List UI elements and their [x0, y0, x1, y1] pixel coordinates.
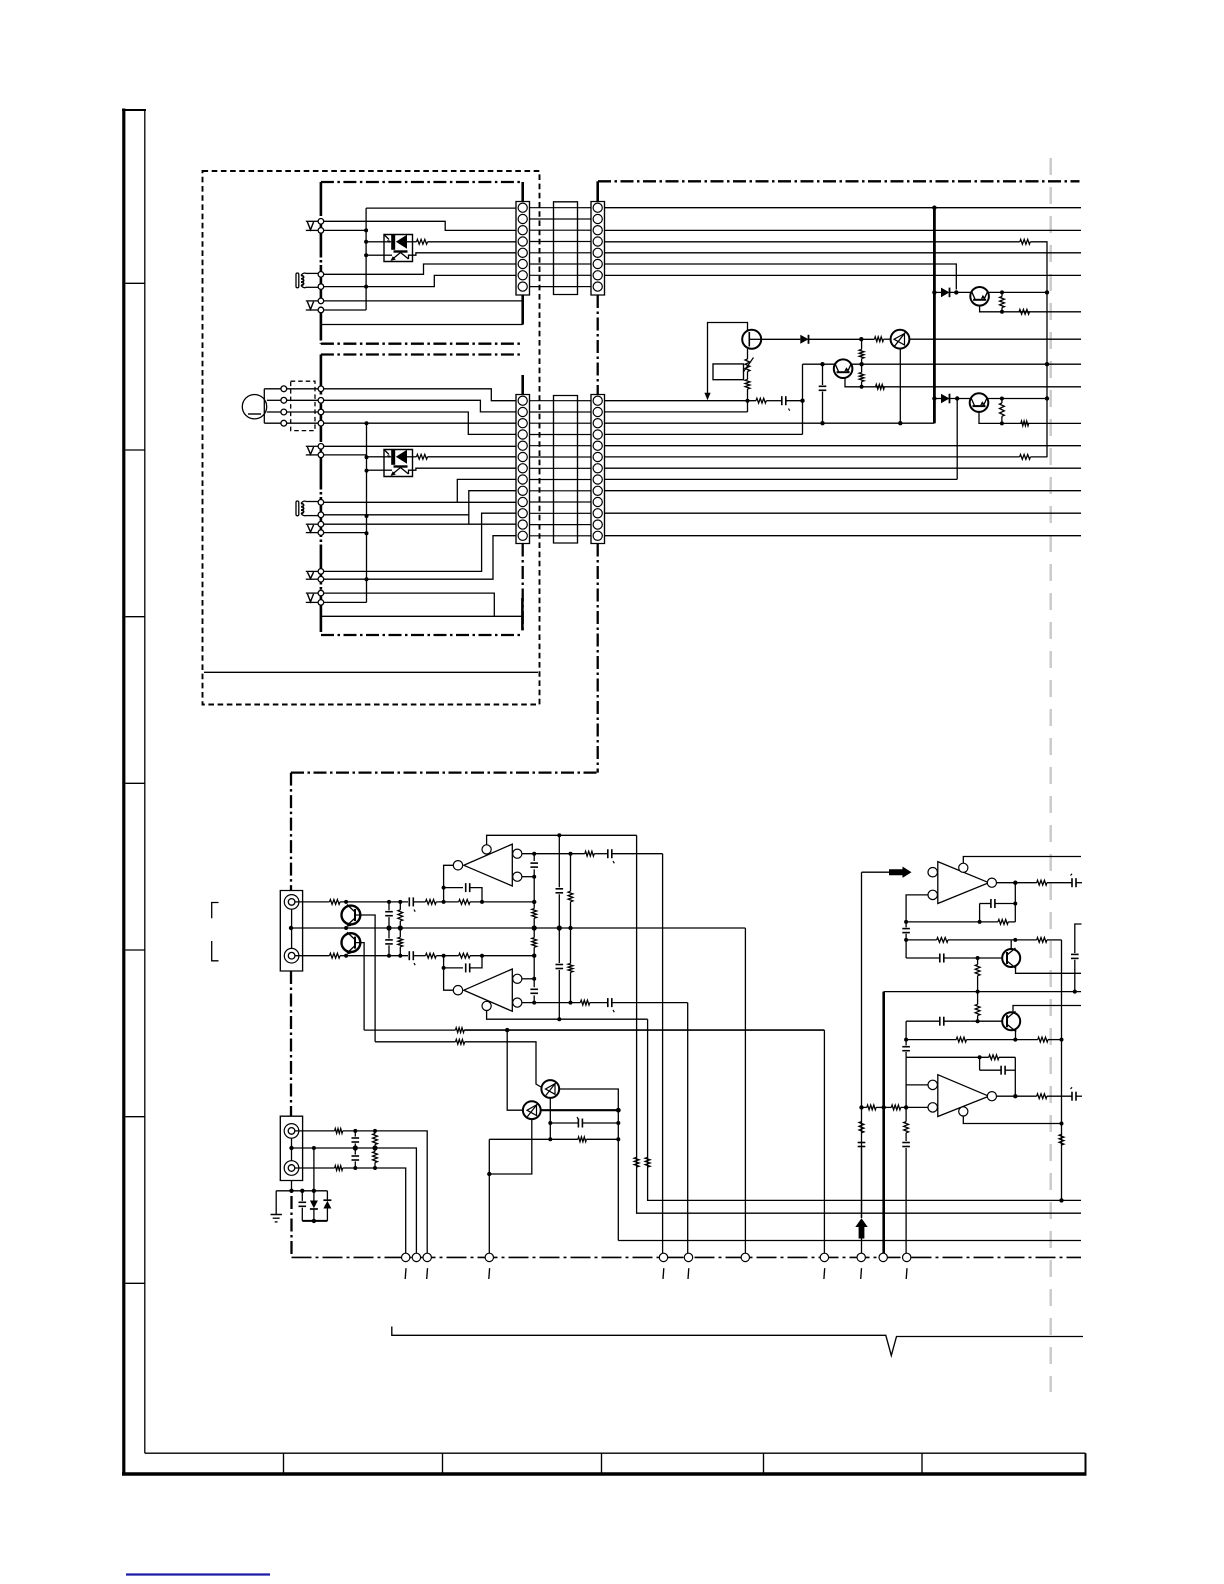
shielded wire symbol V1 lower	[306, 445, 318, 447]
jack J2 internal common	[291, 1138, 293, 1161]
stub above upper-left connector	[521, 182, 524, 202]
wire pin4 resistor to riser corner	[1030, 241, 1047, 244]
dash-dot sleeve drop to bus corner	[290, 1196, 292, 1257]
resistor R on drop x647	[645, 1157, 650, 1167]
stub below upper-left connector to bus return	[521, 295, 524, 325]
diode D protection down	[310, 1191, 318, 1221]
wire V3 bottom to pin13	[324, 536, 516, 580]
jack J1 body	[280, 891, 302, 972]
drop x1061 riser	[1061, 940, 1063, 1201]
jack J2 tip contact	[284, 1124, 299, 1139]
drop wire middle rail to bus	[744, 928, 746, 1253]
wire ring line segment 2	[436, 955, 459, 957]
connector CN upper-right body with pins	[591, 202, 605, 296]
shielded wire symbol V3	[306, 570, 318, 572]
diode D lower cluster	[934, 394, 969, 404]
wire PC2 emitter from bundle	[368, 469, 384, 471]
wire V1 upper top to pin3	[324, 221, 516, 230]
cable ladder between lower connectors	[530, 396, 592, 544]
left bar scale tick 5	[126, 949, 145, 951]
jack J1 ring contact	[284, 948, 299, 963]
page frame bottom title strip	[122, 1453, 1087, 1474]
buffer B circle with left triangle	[523, 1101, 541, 1119]
net rail pin13 lower	[605, 535, 1082, 537]
wire motor t2 to pin2 lower	[287, 399, 318, 401]
op-amp U1 triangle pointing left	[453, 844, 522, 886]
jack J2 body	[280, 1116, 302, 1180]
connector CN lower-right body with pins	[591, 395, 605, 544]
net rail pin9 lower	[605, 490, 1082, 492]
driver emitter drop wire	[899, 349, 901, 424]
junction thick bus top	[932, 206, 936, 210]
capacitor C column x355 upper	[352, 1131, 360, 1148]
resistor R row 1139	[489, 1137, 618, 1142]
riser x1047 tying clusters	[1046, 242, 1048, 457]
wire PC1 collector to pin5	[413, 253, 517, 255]
wire Q3 base drop to long line	[355, 915, 375, 1042]
wire T2 base segment	[970, 1020, 1002, 1022]
varistor RV below FET	[743, 358, 754, 373]
wire L2 top to pin8 and pin10	[305, 501, 318, 503]
net rail pin3 upper	[605, 229, 1082, 231]
bold arrow up on x861	[855, 1218, 867, 1253]
wire T1 collector up	[1010, 940, 1012, 949]
transistor Q mid cluster	[834, 359, 853, 378]
page frame left border bar	[122, 109, 146, 1476]
row 939.9 with resistors	[906, 938, 1061, 943]
shielded wire symbol V2 lower	[306, 523, 318, 525]
buffer A circle with left triangle	[541, 1080, 559, 1098]
feedback capacitor C U2	[444, 956, 482, 973]
series capacitor C row 853	[594, 849, 662, 863]
resistor R collector-emitter upper cluster	[1000, 297, 1005, 308]
wire buffer B output thick	[541, 1109, 619, 1111]
bracket glyph upper	[212, 903, 219, 919]
wire T1 emitter to rail 973	[1016, 968, 1082, 974]
line 1030 to drop x824	[464, 1029, 824, 1031]
row 921.9 left segment	[906, 921, 980, 923]
bus pin circles V2 lower	[318, 521, 324, 527]
wire V2 upper top to connector foot	[324, 300, 523, 302]
bus pin circles L2	[318, 500, 324, 506]
drop wire x489 to bus	[488, 1139, 490, 1253]
series capacitor C U3 output	[1047, 874, 1082, 888]
wire L1 top to pin6	[305, 272, 318, 274]
wire pin1 lower chain	[605, 400, 757, 402]
ground bundle vertical in block 2	[366, 423, 368, 602]
resistor R line 1041	[456, 1039, 465, 1044]
op-amp U3 triangle pointing right	[928, 862, 997, 904]
left bar scale tick 6	[126, 1116, 145, 1118]
series capacitor C T1 base	[906, 954, 970, 963]
resistor R row 853	[585, 851, 594, 856]
wire J2 ring to drop x405	[343, 1168, 406, 1253]
wire x906 to U4 input	[906, 1057, 928, 1085]
line 1041 to buffer A	[465, 1042, 542, 1088]
wire V2 lower top to pin9 and pin12	[324, 523, 516, 525]
resistor R on drop x636	[634, 1157, 639, 1167]
wire motor t4 to pin3 lower	[287, 422, 318, 424]
bus pin circles V3	[318, 569, 324, 575]
thick bus drop x883	[882, 992, 885, 1254]
cable ladder between upper connectors	[530, 202, 592, 295]
wire T2 emitter row 1039	[1015, 1031, 1017, 1040]
resistor R below varistor	[745, 380, 750, 390]
feedback resistor R U3	[980, 904, 1016, 925]
bus pin circles for V1 upper	[318, 219, 324, 225]
inductor L2 block2	[296, 501, 306, 516]
wire buffer B bottom to bus drop	[489, 1119, 532, 1174]
series capacitor C T2 base	[906, 1017, 970, 1026]
diode D upper cluster	[934, 288, 970, 298]
wire J2 ring line	[295, 1167, 335, 1169]
resistor R pin4 rail	[1020, 239, 1031, 244]
resistor R J2 tip	[335, 1129, 343, 1134]
title strip divider 3	[601, 1453, 603, 1473]
feedback capacitor C U3	[980, 883, 1016, 908]
inductor L1 block1	[296, 273, 306, 288]
wire pin4 upper to riser	[605, 241, 1020, 243]
rail through driver transistor	[884, 338, 891, 340]
series capacitor C U4 output	[1047, 1087, 1082, 1101]
motor M	[242, 395, 266, 419]
wire U2 output top	[522, 978, 534, 980]
diode D after FET	[761, 335, 874, 344]
capacitor C row 1123	[550, 1117, 618, 1128]
dashed box around motor terminals	[291, 381, 315, 430]
wire pin8 lower to step	[605, 478, 958, 480]
resistor R ring line 3	[459, 953, 470, 958]
resistor R row 1002	[580, 1000, 589, 1005]
long row 1240 to right edge	[618, 1240, 1081, 1242]
wire J2 tip to drop x427	[343, 1131, 428, 1253]
pcb block 2 dash-dot top edge	[321, 353, 523, 355]
transistor Q T2 right cluster	[1002, 1011, 1020, 1032]
pcb block 1 dash-dot bottom edge	[321, 343, 523, 345]
left bar scale tick 3	[126, 616, 145, 618]
bracket glyph lower	[212, 941, 219, 961]
resistor R emitter rail upper cluster	[1019, 309, 1030, 314]
step wire diode to pin8 rail	[956, 399, 958, 480]
left bar scale tick 2	[126, 449, 145, 451]
gate loop wire with arrow	[708, 323, 748, 394]
dash-dot link upper-right to lower-right connector	[597, 295, 599, 395]
middle common rail	[291, 927, 745, 929]
title strip divider 2	[442, 1453, 444, 1473]
resistor R column x375 upper	[373, 1131, 378, 1148]
wire U1 inverting input feedback	[444, 865, 454, 902]
resistor R line 1030	[456, 1028, 465, 1033]
thick collector bus vertical	[933, 208, 936, 424]
resistor R on x861	[859, 1122, 864, 1133]
column x534 capacitor lower	[530, 956, 538, 1003]
connector CN lower-left body with pins	[516, 395, 530, 544]
wire U2 output bottom long rail	[522, 1002, 581, 1004]
net rail pin7 lower	[605, 467, 1082, 469]
wire connector foot return to bus	[321, 324, 523, 326]
transistor Q lower cluster	[970, 393, 989, 412]
jack J1 tip contact	[284, 895, 299, 910]
empty value label box	[713, 364, 744, 380]
row 1039.6 with resistors	[906, 1037, 1061, 1042]
resistor R emitter rail lower cluster	[1021, 421, 1029, 426]
capacitor C x906 into base row	[902, 922, 910, 940]
column x559 capacitor upper	[556, 835, 564, 928]
title strip divider 4	[763, 1453, 765, 1473]
wire V1 lower top to pin5	[324, 445, 516, 447]
wire T2 collector to rail 1005	[1013, 1006, 1081, 1013]
wire motor t3 to pin4 lower	[287, 411, 318, 413]
net rail pin11 lower	[605, 512, 1082, 514]
net rail pin5 lower	[605, 445, 1082, 447]
resistor R on x906 drop	[904, 1107, 909, 1141]
capacitor C x906 lower	[902, 1040, 910, 1058]
wire U4 vee stub to row 1123	[963, 1116, 1061, 1124]
ground branch row	[276, 1190, 327, 1192]
pcb block 1 left edge bus	[320, 182, 323, 344]
bus pin circles for L1	[318, 272, 324, 278]
wire tip line segment 3	[470, 901, 534, 903]
left bar scale tick 4	[126, 782, 145, 784]
wire pin4 lower to riser	[605, 433, 803, 435]
base rail y364	[803, 363, 1082, 365]
column x570 resistor upper	[568, 854, 573, 928]
wire PC1 emitter from bundle	[368, 254, 384, 256]
rail pin3 lower to thick bus	[605, 422, 935, 424]
wire V1 upper bottom to bundle	[324, 229, 366, 231]
signal arrow bold into op-amp U3	[862, 867, 912, 878]
wire U3 vcc stub to rail 856	[963, 857, 1081, 864]
column x559 capacitor lower	[556, 928, 564, 1019]
wire U1 output bottom	[522, 876, 534, 878]
shielded wire symbol V2 upper	[306, 300, 318, 302]
dash-dot below lower-left connector	[522, 544, 524, 632]
resistor R T2 base divider	[975, 992, 980, 1022]
wire jack J1 ring line	[295, 955, 330, 957]
outer dashed enclosure box	[203, 171, 540, 705]
wire V1 lower bottom to bundle	[324, 454, 367, 456]
series capacitor C pin1 chain	[766, 396, 802, 411]
row 991.6 from thick bus	[884, 991, 1081, 993]
wire U3 inverting input	[906, 895, 928, 922]
wire x906 T2 base corner down	[905, 1021, 907, 1039]
motor lead wires	[263, 389, 265, 423]
drop wire vcc rail to row 1213	[637, 835, 1081, 1213]
series capacitor C ring line	[409, 951, 425, 965]
left bar scale tick 7	[126, 1282, 145, 1284]
wire LED anode into PC2	[368, 456, 384, 458]
transistor Q upper cluster	[970, 287, 989, 306]
wire x861 lower segment	[861, 1148, 863, 1218]
resistor R base-to-lower	[859, 373, 864, 382]
net rail pin1 upper	[605, 207, 1082, 209]
main board dash-dot top rail	[598, 180, 1080, 182]
line Q3 output resistor	[375, 1041, 455, 1043]
protection common bar	[302, 1220, 327, 1222]
resistor R column x400 upper	[398, 902, 403, 928]
separator line inside dashed enclosure	[204, 671, 538, 673]
series capacitor C row 1002	[590, 998, 688, 1012]
wire L2 bottom to bundle	[305, 515, 318, 517]
wire LED anode into PC1	[368, 241, 384, 243]
capacitor C column x355 lower	[352, 1148, 360, 1168]
hook wire with capacitor right side	[1071, 924, 1082, 992]
dash-dot frame rail upper of bottom board	[291, 771, 598, 773]
wire PC2 collector to pin7	[413, 468, 517, 470]
left bar scale tick 1	[126, 282, 145, 284]
title strip divider 5	[921, 1453, 923, 1473]
bottom dash-dot bus rail	[292, 1256, 1082, 1258]
bus pin circles V1 lower	[318, 444, 324, 450]
dash-dot below lower-right connector	[597, 544, 599, 773]
resistor R U3 output	[1037, 880, 1047, 885]
shielded wire symbol V4	[306, 592, 318, 594]
ground bundle vertical in block 1	[365, 208, 367, 310]
capacitor C column x389 upper	[385, 902, 393, 928]
wire pin6 lower with resistor to riser	[605, 456, 1020, 458]
wire V2 upper bottom to bundle	[324, 309, 366, 311]
driver transistor Q circle with arrow	[891, 330, 910, 349]
resistor R on PC1 output to pin4	[417, 239, 428, 244]
wire tip line segment	[340, 901, 408, 903]
wire jack J1 tip line	[295, 901, 330, 903]
wire tip line segment 2	[436, 901, 459, 903]
block2 bottom return wire	[321, 615, 522, 617]
resistor R bus-to-base upper	[859, 349, 864, 358]
wire U3 output	[997, 882, 1037, 884]
wire buffer B input from line 1030	[507, 1030, 523, 1110]
resistor R collector-emitter lower cluster	[1000, 403, 1005, 416]
bus connector circles	[402, 1253, 911, 1261]
net rail pin7 upper	[605, 274, 1082, 276]
wire V3 top to pin11	[324, 513, 516, 571]
emitter wire lower cluster rail	[979, 412, 1081, 424]
FET Q2 circle	[742, 330, 761, 349]
resistor R jack J1 ring	[330, 953, 341, 958]
wire U4 output	[997, 1095, 1037, 1097]
wire Q4 base drop to long line	[355, 943, 364, 1031]
wire J2 tip line	[295, 1130, 335, 1132]
resistor R ring line 2	[426, 953, 437, 958]
resistor R tip line 3	[459, 900, 470, 905]
bus pin circles for V2 upper	[318, 298, 324, 304]
wire V4 top	[324, 593, 495, 616]
emitter wire upper cluster	[980, 306, 1081, 312]
wire x906 down to T1 base capacitor	[905, 940, 907, 958]
transistor Q T1 right cluster	[1002, 948, 1020, 969]
wire U2 vee stub to long rail	[487, 1010, 648, 1019]
bus pin ticks below circles	[405, 1268, 907, 1279]
resistor R into driver transistor	[875, 337, 884, 342]
resistor R pin1 chain	[756, 398, 766, 403]
drop x824 from line 1030	[823, 1030, 825, 1253]
bus pin circles V4	[318, 590, 324, 596]
wire U1 output top long rail	[522, 853, 585, 855]
feedback capacitor C U4	[980, 1057, 1016, 1096]
resistor R J2 ring	[335, 1166, 343, 1171]
wire T1 base segment	[970, 957, 1002, 959]
resistor R T1 base divider	[975, 958, 980, 992]
dash-dot left drop to jack J1	[290, 773, 292, 891]
pcb block 2 dash-dot bottom edge	[321, 634, 522, 636]
dash-dot link jack J1 to jack J2	[290, 971, 292, 1116]
capacitor C on x906 drop	[902, 1143, 910, 1254]
drop wire U2 output to bus	[687, 1003, 689, 1254]
blue footer link underline	[126, 1573, 270, 1575]
resistor R on PC2 output to pin6	[417, 454, 428, 459]
wire PC2 led out to pin6	[413, 456, 417, 458]
resistor R emitter mid rail	[876, 384, 885, 389]
transistor Q4 bold	[342, 932, 361, 954]
ground symbol	[271, 1191, 282, 1222]
resistor R column x400 lower	[398, 928, 403, 956]
wire ring line segment	[340, 955, 408, 957]
capacitor C column x389 lower	[385, 928, 393, 956]
stub above upper-right connector	[596, 181, 599, 201]
drop wire vee rail to row 1200	[648, 1019, 1081, 1200]
jack J1 internal common wire	[291, 909, 293, 948]
column x534 resistor lower	[532, 928, 537, 956]
wire U2 inverting input feedback	[444, 956, 454, 991]
pin1 junction riser	[802, 364, 804, 434]
wire pin1 upper from bundle	[366, 207, 516, 209]
drop wire U1 output to bus	[662, 854, 664, 1254]
pcb block 1 dash-dot top edge	[321, 181, 523, 183]
resistor R on x1061	[1059, 1134, 1064, 1145]
resistor R U4 output	[1037, 1094, 1047, 1099]
op-amp U4 triangle pointing right	[928, 1075, 997, 1117]
collector wire lower cluster	[988, 398, 1047, 400]
jack J2 ring contact	[284, 1161, 299, 1176]
resistor R column x375 lower	[373, 1148, 378, 1168]
wire J2 middle line to drop x416	[292, 1148, 417, 1253]
wire V2 lower bottom to bundle	[324, 532, 367, 534]
gray reference dashed vertical line	[1049, 158, 1051, 1392]
optocoupler PC2	[384, 449, 413, 476]
row 1057.3 feedback resistor U4	[906, 1055, 1015, 1060]
column x534 resistor upper	[532, 902, 537, 928]
wire U1 vcc stub to long rail	[487, 835, 637, 845]
column x534 capacitor upper	[530, 854, 538, 902]
wire pin2 lower to FET chain	[605, 411, 748, 413]
emitter wire mid cluster rail y387	[845, 378, 1081, 387]
connector CN upper-left body with pins	[516, 202, 530, 296]
collector wire upper cluster	[989, 291, 1047, 293]
net rail pin5 upper	[605, 252, 1082, 254]
optocoupler PC1	[384, 234, 413, 261]
cap riser x822 with capacitor	[819, 364, 827, 423]
title strip divider 1	[283, 1453, 285, 1473]
wire motor t1 to pin1 lower	[287, 388, 318, 390]
arrow feed drop x861	[861, 872, 863, 1218]
block2 bottom right thick stub	[521, 598, 524, 630]
wire buffer A output	[559, 1089, 618, 1241]
op-amp U2 triangle pointing left	[453, 969, 522, 1011]
line Q4 output to buffer	[364, 1029, 455, 1031]
wire J2 common drop from middle	[313, 1148, 315, 1191]
bus pin circles motor	[318, 386, 324, 392]
wire buffer A emitter column	[549, 1098, 551, 1139]
column x570 resistor lower	[568, 928, 573, 1003]
diode D protection up	[323, 1191, 331, 1221]
motor terminal circles	[281, 386, 287, 392]
page-link brace with notch	[392, 1327, 1083, 1356]
wire J2 sleeve down	[291, 1181, 293, 1191]
wire ring line segment 3	[470, 955, 534, 957]
resistor R pin6 rail end	[1020, 455, 1031, 460]
wire L1 bottom to pin7	[305, 286, 318, 288]
stub above lower-left connector	[521, 375, 524, 395]
